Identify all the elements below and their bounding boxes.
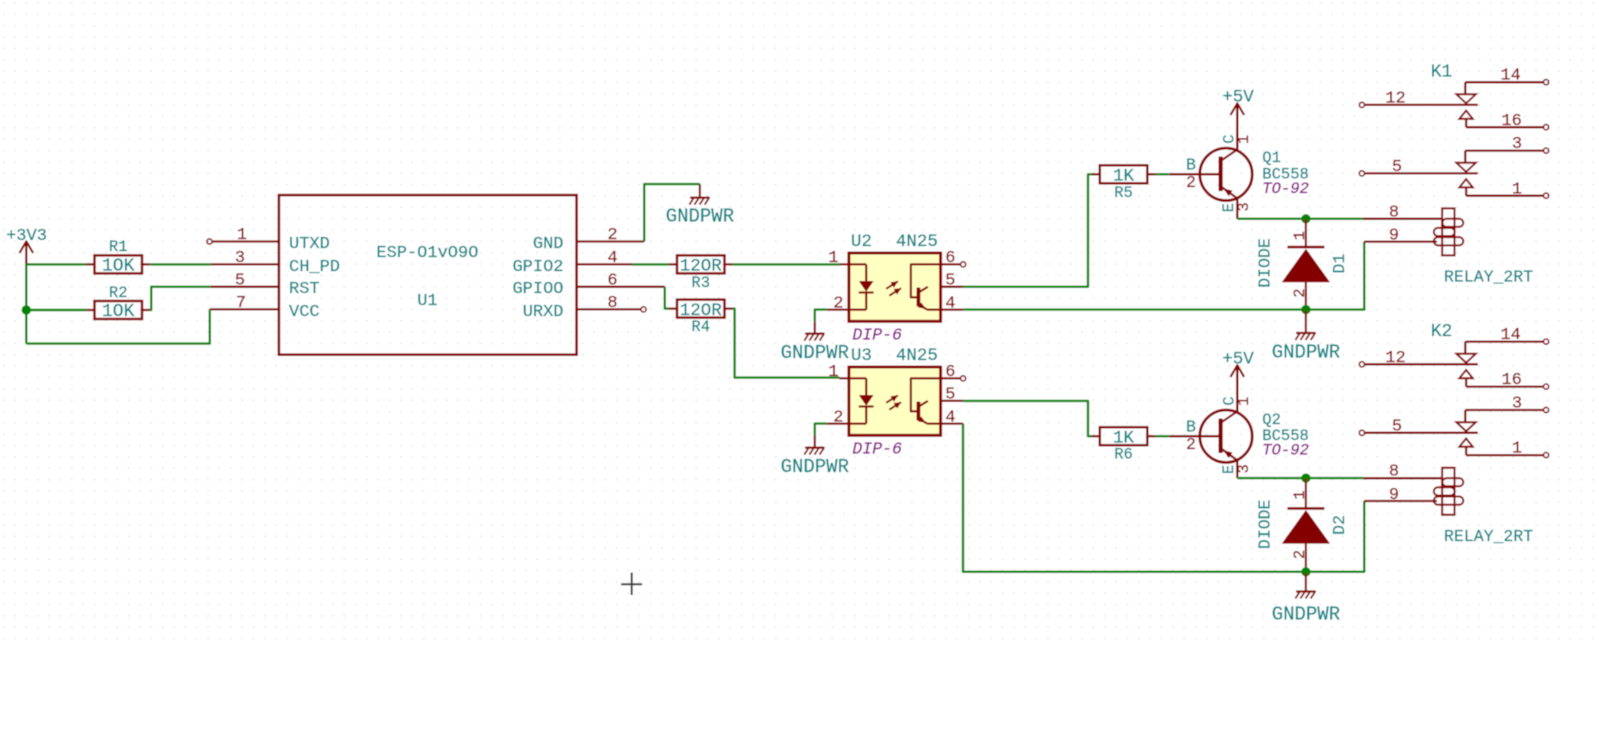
svg-text:3: 3: [235, 249, 245, 268]
wire +3V3 down: [25, 264, 27, 343]
K2 pin 8: [1363, 477, 1443, 479]
U2 LED: [865, 264, 867, 281]
K1 pin 1: [1466, 195, 1543, 197]
diode D2: [1305, 478, 1307, 508]
svg-text:9: 9: [1389, 486, 1399, 505]
svg-text:K1: K1: [1431, 63, 1453, 83]
svg-text:GPIOO: GPIOO: [512, 280, 563, 299]
resistor R6 1K: [1100, 427, 1148, 445]
svg-text:6: 6: [945, 363, 955, 382]
resistor R1 10K: [95, 255, 143, 273]
K2 contact 1 moving triangle: [1456, 354, 1475, 363]
U2 pin 5: [941, 286, 964, 288]
wire D1 junction to ground: [1305, 310, 1307, 332]
U3 pin 4: [927, 422, 963, 424]
svg-text:CH_PD: CH_PD: [289, 258, 340, 277]
K1 pin 8: [1363, 218, 1443, 220]
svg-text:DIODE: DIODE: [1256, 499, 1275, 549]
svg-text:UTXD: UTXD: [289, 235, 330, 254]
K1 pin 3: [1465, 149, 1543, 151]
wire bottom run to VCC pin 7: [26, 309, 210, 343]
svg-text:4: 4: [945, 409, 955, 428]
wire U3 pin 5 to R6: [963, 401, 1092, 436]
svg-text:3: 3: [1235, 464, 1253, 473]
wire U2 pin 4 to D1 net: [963, 308, 1306, 310]
svg-text:4: 4: [945, 295, 955, 314]
svg-text:ESP-O1vO9O: ESP-O1vO9O: [376, 244, 478, 263]
svg-text:GNDPWR: GNDPWR: [1272, 604, 1340, 626]
svg-text:U1: U1: [417, 292, 437, 311]
svg-text:TO-92: TO-92: [1262, 442, 1309, 460]
svg-text:6: 6: [945, 249, 955, 268]
svg-text:12: 12: [1385, 349, 1405, 368]
svg-text:5: 5: [235, 272, 245, 291]
U1 pin 1 UTXD: [207, 239, 212, 244]
node junction below D1: [1301, 305, 1310, 314]
K2 contact 2 moving triangle: [1456, 422, 1475, 431]
K2 pin 9: [1364, 500, 1437, 502]
svg-text:Q1: Q1: [1262, 149, 1281, 167]
svg-text:1: 1: [1512, 180, 1522, 199]
K2 pin 14: [1465, 340, 1543, 342]
K1 pin 14: [1465, 81, 1543, 83]
ground GNDPWR under D2: [1296, 590, 1316, 592]
K1 pin 12 common: [1359, 102, 1364, 107]
K1 pin 16: [1466, 126, 1543, 128]
K1 contact 2 fixed triangle: [1459, 179, 1472, 187]
U2 pin 1: [839, 263, 866, 265]
resistor R3 120R: [677, 255, 725, 273]
K2 coil: [1442, 468, 1454, 515]
wire R2 up to RST pin 5: [150, 287, 210, 310]
diode D1: [1305, 219, 1307, 247]
ground GNDPWR under U3: [805, 447, 825, 449]
svg-text:5: 5: [1392, 417, 1402, 436]
svg-text:D1: D1: [1330, 254, 1349, 274]
svg-text:RELAY_2RT: RELAY_2RT: [1444, 268, 1533, 287]
wire R3 to U2 pin 1: [733, 263, 840, 265]
wire U3 pin 4 down and right to D2 net: [963, 424, 1306, 572]
resistor R5 1K: [1100, 165, 1148, 183]
optocoupler U2 4N25 body: [849, 253, 941, 321]
svg-text:5: 5: [1392, 158, 1402, 177]
svg-text:3: 3: [1235, 202, 1253, 211]
svg-text:1: 1: [1291, 231, 1309, 240]
wire R5 to base: [1155, 173, 1169, 175]
svg-text:14: 14: [1500, 326, 1520, 345]
svg-text:1: 1: [1235, 397, 1253, 406]
svg-text:7: 7: [236, 294, 246, 313]
K1 pin 9: [1364, 240, 1437, 242]
svg-text:GNDPWR: GNDPWR: [1272, 342, 1340, 364]
svg-text:1OK: 1OK: [102, 302, 135, 322]
wire GPIO0 down to R4: [665, 287, 669, 309]
svg-text:K2: K2: [1431, 322, 1453, 342]
K2 pin 5 common: [1359, 430, 1364, 435]
wire R1 to CH_PD pin 3: [150, 263, 210, 265]
svg-text:6: 6: [607, 272, 617, 291]
svg-text:1: 1: [1291, 490, 1309, 499]
svg-text:4: 4: [607, 249, 617, 268]
U3 LED: [865, 378, 867, 395]
U3 pin 1: [839, 377, 866, 379]
U1 pin 5 RST: [211, 286, 279, 288]
U1 pin 7 VCC: [210, 308, 279, 310]
svg-text:DIP-6: DIP-6: [852, 440, 902, 459]
svg-text:VCC: VCC: [289, 303, 320, 322]
resistor R2 10K: [95, 301, 143, 319]
svg-text:2: 2: [1291, 288, 1309, 297]
K2 pin 12 common: [1359, 362, 1364, 367]
svg-text:4N25: 4N25: [896, 346, 938, 366]
svg-text:R2: R2: [109, 284, 128, 302]
K2 contact 2 fixed triangle: [1459, 439, 1472, 447]
svg-text:GNDPWR: GNDPWR: [666, 205, 734, 227]
optocoupler U3 4N25 body: [849, 367, 941, 435]
svg-text:9: 9: [1389, 226, 1399, 245]
wire D2 net to K2 pin 9: [1306, 501, 1364, 572]
K2 contact 1 fixed triangle: [1459, 370, 1472, 378]
U2 pin 2: [827, 308, 867, 310]
svg-text:16: 16: [1501, 112, 1521, 131]
svg-text:GND: GND: [533, 235, 564, 254]
svg-text:GPIO2: GPIO2: [512, 258, 563, 277]
svg-text:12: 12: [1385, 90, 1405, 109]
svg-text:5: 5: [945, 386, 955, 405]
U1 pin 2 GND: [577, 240, 645, 242]
U1 pin 4 GPIO2: [577, 263, 632, 265]
node junction at R2 row: [22, 305, 31, 314]
svg-text:2: 2: [607, 226, 617, 245]
svg-text:1: 1: [237, 226, 247, 245]
cursor crosshair: [631, 573, 633, 596]
transistor Q1 BC558 PNP: [1200, 148, 1252, 200]
svg-text:8: 8: [607, 294, 617, 313]
ground GNDPWR under D1: [1296, 332, 1316, 334]
svg-text:8: 8: [1389, 463, 1399, 482]
wire R4 to U3 pin 1: [733, 309, 840, 378]
svg-text:1: 1: [1235, 135, 1253, 144]
K2 pin 1: [1466, 454, 1543, 456]
U3 phototransistor: [911, 378, 941, 411]
U2 pin 4: [927, 308, 963, 310]
svg-text:B: B: [1186, 418, 1196, 437]
svg-text:2: 2: [833, 408, 843, 427]
svg-text:3: 3: [1512, 135, 1522, 154]
svg-text:1: 1: [828, 363, 838, 382]
svg-text:R4: R4: [691, 318, 710, 336]
svg-text:R6: R6: [1114, 446, 1133, 464]
node junction above D1: [1301, 214, 1310, 223]
svg-text:2: 2: [833, 294, 843, 313]
wire R6 to base: [1155, 435, 1169, 437]
wire D1 net to K1 pin 9: [1306, 242, 1364, 310]
svg-text:3: 3: [1512, 395, 1522, 414]
svg-text:URXD: URXD: [523, 303, 564, 322]
wire D2 junction to ground: [1305, 572, 1307, 591]
svg-text:R1: R1: [109, 238, 128, 256]
wire GPIO2 to R3: [632, 263, 669, 265]
svg-text:RELAY_2RT: RELAY_2RT: [1444, 527, 1533, 546]
svg-text:GNDPWR: GNDPWR: [781, 342, 849, 364]
K1 coil: [1442, 208, 1454, 255]
svg-text:DIP-6: DIP-6: [852, 326, 902, 345]
wire +3V3 to R1: [26, 263, 86, 265]
svg-text:DIODE: DIODE: [1256, 238, 1275, 288]
svg-text:16: 16: [1501, 371, 1521, 390]
svg-text:2: 2: [1186, 173, 1196, 192]
ic U1 ESP-01v090 body: [279, 195, 577, 355]
U2 pin 6: [941, 263, 961, 265]
U2 pin 2 wire to ground: [815, 310, 827, 322]
svg-text:U3: U3: [851, 346, 872, 366]
U2 light arrows: [886, 281, 898, 288]
svg-text:R5: R5: [1114, 184, 1133, 202]
node junction above D2: [1301, 473, 1310, 482]
svg-text:5: 5: [945, 272, 955, 291]
svg-text:4N25: 4N25: [896, 232, 938, 252]
K1 contact 1 fixed triangle: [1459, 111, 1472, 119]
svg-text:D2: D2: [1330, 515, 1349, 535]
svg-text:R3: R3: [691, 274, 710, 292]
svg-text:1OK: 1OK: [102, 257, 135, 277]
svg-text:TO-92: TO-92: [1262, 180, 1309, 198]
K1 contact 1 moving triangle: [1456, 94, 1475, 103]
svg-text:1: 1: [828, 249, 838, 268]
svg-text:U2: U2: [851, 232, 872, 252]
U1 pin 8 URXD: [577, 308, 641, 310]
U3 pin 2: [827, 422, 867, 424]
U2 phototransistor: [911, 264, 941, 297]
node junction below D2: [1301, 567, 1310, 576]
wire emitter of Q1 to diode net: [1237, 218, 1363, 220]
K1 contact 2 moving triangle: [1456, 163, 1475, 172]
U1 pin 6 GPIO0: [577, 286, 665, 288]
K1 pin 5 common: [1359, 171, 1364, 176]
K2 pin 16: [1466, 385, 1543, 387]
ground GNDPWR top: [690, 197, 710, 199]
svg-text:GNDPWR: GNDPWR: [781, 456, 849, 478]
svg-text:2: 2: [1291, 550, 1309, 559]
resistor R4 120R: [677, 300, 725, 318]
U1 pin 3 CH_PD: [211, 263, 279, 265]
svg-text:Q2: Q2: [1262, 411, 1281, 429]
svg-text:8: 8: [1389, 203, 1399, 222]
U3 pin 5: [941, 400, 964, 402]
U3 pin 2 wire to ground: [815, 424, 827, 436]
wire U2 pin 5 to R5: [963, 174, 1092, 286]
U3 light arrows: [886, 395, 898, 402]
wire emitter of Q2 to diode net: [1237, 477, 1363, 479]
svg-text:1: 1: [1512, 440, 1522, 459]
svg-text:2: 2: [1186, 435, 1196, 454]
transistor Q2 BC558 PNP: [1200, 410, 1252, 462]
U3 pin 6: [941, 377, 961, 379]
ground GNDPWR under U2: [805, 333, 825, 335]
K2 pin 3: [1465, 409, 1543, 411]
svg-text:RST: RST: [289, 280, 320, 299]
wire junction to R2: [26, 309, 86, 311]
svg-text:14: 14: [1500, 67, 1520, 86]
wire GND pin 2 to GNDPWR: [644, 184, 700, 241]
svg-text:B: B: [1186, 156, 1196, 175]
